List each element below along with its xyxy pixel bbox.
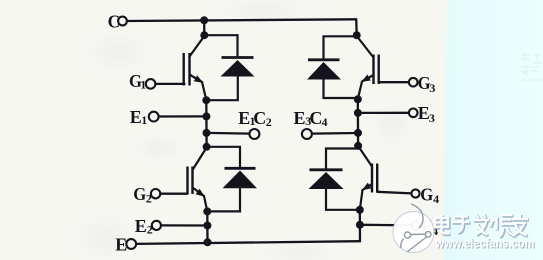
svg-text:2: 2 — [147, 223, 153, 237]
faint right-edge watermark artifact — [521, 53, 543, 80]
terminal G1 — [146, 79, 156, 89]
svg-text:C: C — [253, 108, 266, 128]
svg-text:3: 3 — [429, 111, 435, 125]
terminal E1 — [149, 112, 159, 122]
svg-text:2: 2 — [266, 115, 272, 129]
junction E1C2 tap — [203, 129, 211, 137]
diode D3 — [307, 36, 358, 98]
wire G4 lead — [377, 192, 411, 194]
wire bottom rail E — [136, 241, 360, 244]
wire right trunk upper segment — [355, 19, 358, 35]
junction E rail / left trunk — [204, 238, 212, 246]
svg-text:E: E — [294, 108, 306, 128]
svg-text:www.elecfans.com: www.elecfans.com — [435, 236, 535, 251]
diode D2 — [207, 147, 257, 212]
wire E4 lead — [360, 224, 409, 227]
transistor Q2 — [188, 148, 208, 212]
wire top rail C — [127, 19, 356, 21]
terminal G3 — [409, 78, 418, 87]
terminal E4 — [411, 221, 419, 229]
svg-text:E: E — [115, 234, 127, 254]
wire G3 lead — [379, 81, 409, 83]
junction E1 tap — [202, 112, 210, 120]
junction Q2 collector / D2 cathode — [203, 143, 211, 151]
terminal G2 — [151, 189, 160, 198]
terminal circles — [118, 17, 420, 249]
svg-text:G: G — [133, 184, 146, 204]
junction Q1 collector / D1 cathode — [200, 31, 208, 39]
transistor Q1 — [184, 36, 207, 100]
wire E3 lead — [358, 112, 409, 114]
svg-text:C: C — [108, 12, 121, 32]
diode D1 — [204, 35, 254, 100]
terminal E3C4 — [302, 129, 312, 139]
transistor Q4 — [359, 147, 378, 210]
svg-text:3: 3 — [429, 81, 435, 95]
svg-text:E: E — [130, 107, 142, 127]
svg-text:2: 2 — [146, 192, 152, 206]
junction Q2 emitter / D2 anode — [203, 207, 211, 215]
wire E2 lead — [161, 224, 207, 226]
junction Q1 emitter / D1 anode — [202, 96, 210, 104]
wire right trunk middle segment — [357, 99, 360, 146]
wire G2 lead — [160, 193, 187, 195]
svg-text:E: E — [135, 216, 147, 236]
terminal E2 — [152, 221, 161, 230]
terminal G4 — [411, 189, 419, 197]
svg-text:1: 1 — [140, 78, 146, 92]
wire right trunk lower segment — [359, 210, 362, 241]
diode D4 — [309, 149, 360, 210]
transistor Q3 — [357, 36, 379, 99]
junction Q4 emitter / D4 anode — [356, 206, 364, 214]
svg-text:4: 4 — [322, 115, 328, 129]
terminal E — [126, 239, 136, 249]
junction C rail / left trunk — [200, 16, 208, 24]
junction E3 tap — [354, 109, 362, 117]
wire E1 lead — [159, 115, 207, 117]
wire E1C2 lead — [207, 132, 250, 135]
wire left trunk middle segment — [205, 100, 208, 147]
wire left trunk lower segment — [206, 211, 208, 242]
junction E2 tap — [203, 222, 211, 230]
terminal E1C2 — [249, 129, 259, 139]
terminal E3 — [409, 109, 418, 118]
wire left trunk upper segment — [203, 20, 205, 35]
junction Q3 emitter / D3 anode — [354, 95, 362, 103]
junction E3C4 tap — [354, 129, 362, 137]
svg-text:G: G — [420, 185, 433, 205]
junction E4 tap — [356, 221, 364, 229]
terminal C — [118, 17, 127, 26]
wire G1 lead — [155, 83, 184, 85]
wire E3C4 lead — [312, 132, 358, 135]
svg-text:E: E — [238, 108, 250, 128]
junction Q3 collector / D3 cathode — [353, 31, 361, 39]
watermark logo — [393, 204, 434, 253]
junction Q4 collector / D4 cathode — [354, 142, 362, 150]
svg-text:C: C — [309, 108, 322, 128]
svg-text:4: 4 — [433, 192, 439, 206]
svg-text:1: 1 — [141, 113, 147, 127]
